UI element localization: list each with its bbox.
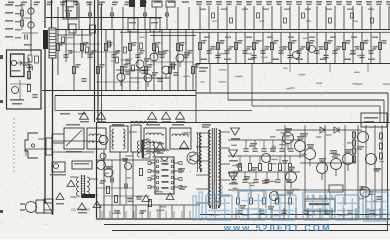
svg-text:CD POWER: CD POWER bbox=[71, 208, 90, 212]
svg-text:www.520FDT.COM: www.520FDT.COM bbox=[223, 223, 332, 233]
